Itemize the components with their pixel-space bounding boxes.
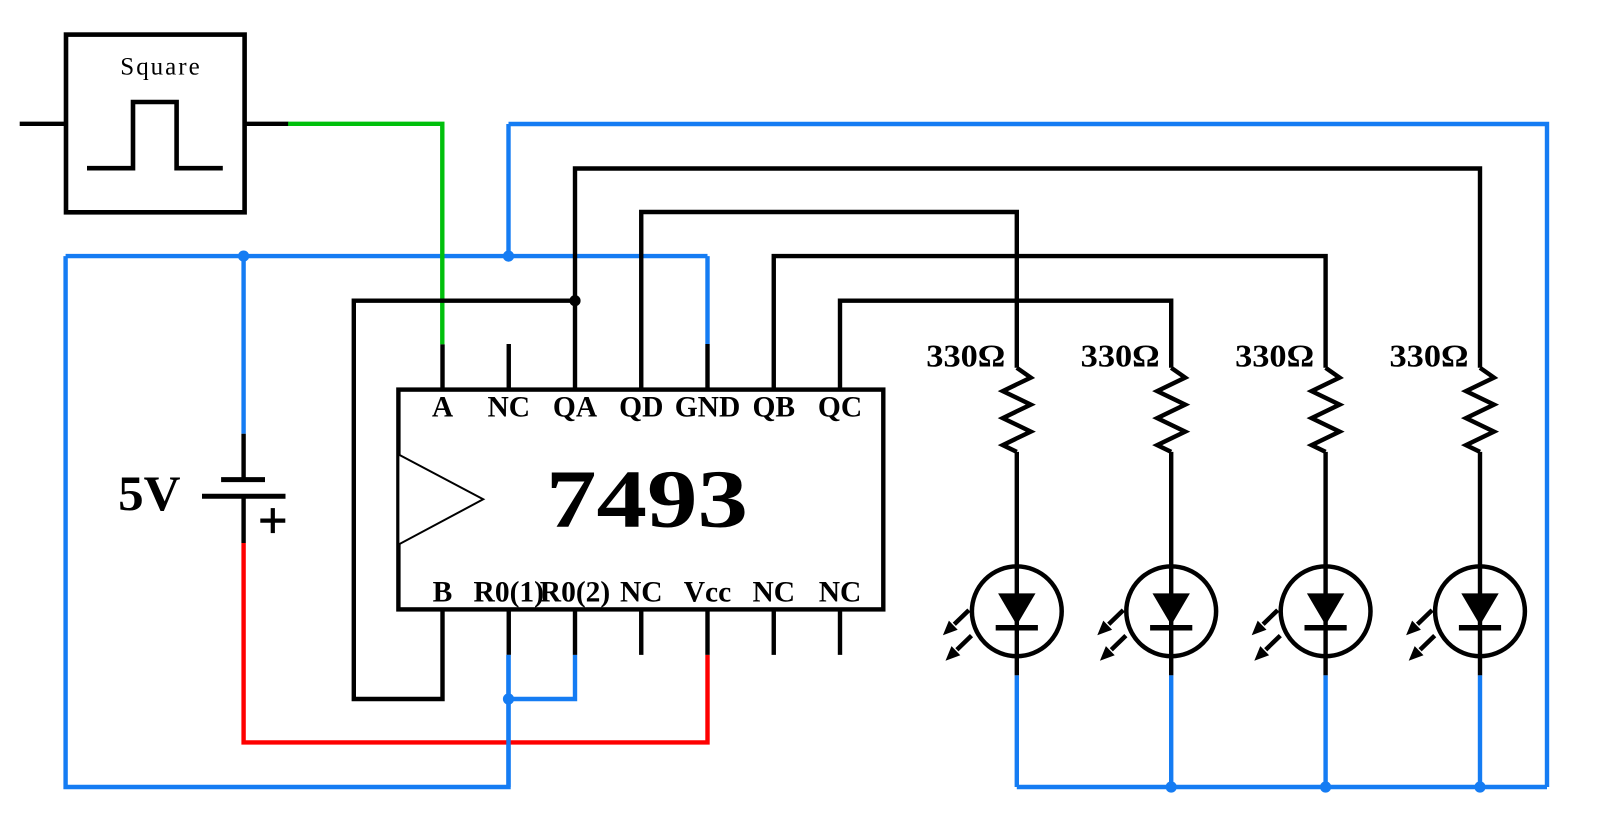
- junction: blue rail dot 2: [1166, 781, 1177, 792]
- svg-text:QD: QD: [619, 391, 663, 423]
- wire: source left stub: [20, 122, 66, 126]
- pin NC bottom7 stub: [838, 609, 842, 655]
- wire: QA to R4: [575, 169, 1480, 390]
- wire: blue top rail to right side: [509, 124, 1548, 787]
- junction: blue dot at R0(1): [503, 693, 514, 704]
- svg-text:R0(2): R0(2): [540, 577, 610, 609]
- svg-text:QC: QC: [818, 391, 862, 423]
- label battery plus sign: [260, 518, 285, 522]
- svg-text:B: B: [433, 577, 453, 609]
- resistor R4 330 ohm: [1466, 368, 1494, 452]
- svg-text:NC: NC: [752, 577, 795, 609]
- pin R0(1) stub: [507, 609, 511, 655]
- junction: blue dot ground rail at top drop: [503, 251, 514, 262]
- junction: blue rail dot 3: [1320, 781, 1331, 792]
- wire: B feedback from QA: [354, 301, 575, 699]
- LED D1: [943, 452, 1062, 676]
- svg-text:330Ω: 330Ω: [1390, 339, 1469, 374]
- wire: source output stub: [245, 122, 289, 126]
- wire: blue LED D4 to rail: [1478, 675, 1482, 787]
- wire: blue R0(1) to bottom rail: [506, 655, 510, 787]
- LED D3: [1252, 452, 1371, 676]
- svg-text:330Ω: 330Ω: [926, 339, 1005, 374]
- wire: bottom blue rail under LEDs: [1017, 785, 1547, 789]
- junction: blue dot ground rail at battery: [238, 251, 249, 262]
- wire: blue LED D2 to rail: [1169, 675, 1173, 787]
- wire: green clock wire to pin A: [288, 124, 442, 345]
- square wave source SRC1 box: [66, 35, 245, 213]
- pin Vcc stub: [705, 609, 709, 655]
- pin R0(2) stub: [573, 609, 577, 655]
- junction: black dot QA/B: [569, 295, 580, 306]
- pin A stub: [440, 344, 444, 389]
- svg-text:Square: Square: [120, 54, 199, 81]
- wire: blue drop to GND pin: [705, 256, 709, 344]
- battery V1: [241, 434, 245, 480]
- svg-text:NC: NC: [487, 391, 530, 423]
- LED D2: [1097, 452, 1216, 676]
- pin NC bottom4 stub: [639, 609, 643, 655]
- wire: blue battery top lead: [241, 256, 245, 434]
- svg-text:A: A: [432, 391, 454, 423]
- wire: QB to R3: [774, 256, 1326, 390]
- pin NC top stub: [507, 344, 511, 390]
- svg-text:QB: QB: [752, 391, 795, 423]
- wire: blue branch to R0(2): [509, 655, 576, 699]
- svg-text:7493: 7493: [546, 453, 748, 545]
- wire: blue LED D3 to rail: [1323, 675, 1327, 787]
- resistor R1 330 ohm: [1003, 368, 1031, 452]
- wire: QC to R2: [840, 301, 1171, 390]
- wire: blue LED D1 to rail: [1015, 675, 1019, 787]
- svg-text:QA: QA: [553, 391, 598, 423]
- svg-text:5V: 5V: [118, 465, 180, 521]
- svg-text:Vcc: Vcc: [684, 577, 732, 609]
- wire: ground rail: [66, 254, 708, 258]
- svg-text:330Ω: 330Ω: [1235, 339, 1314, 374]
- wire: left blue rail: [66, 256, 509, 787]
- LED D4: [1406, 452, 1525, 676]
- junction: blue rail dot 4: [1474, 781, 1485, 792]
- pin GND stub: [705, 344, 709, 390]
- resistor R3 330 ohm: [1312, 368, 1340, 452]
- wire: QD to R1: [641, 212, 1017, 390]
- svg-text:330Ω: 330Ω: [1081, 339, 1160, 374]
- square wave glyph: [87, 102, 223, 168]
- wire: red battery positive to Vcc: [244, 543, 708, 742]
- svg-text:NC: NC: [819, 577, 862, 609]
- svg-text:R0(1): R0(1): [474, 577, 544, 609]
- wire: blue vertical top to ground rail: [506, 124, 510, 256]
- svg-text:GND: GND: [675, 391, 741, 423]
- IC U1 7493 body: [398, 390, 883, 610]
- clock input triangle: [398, 454, 483, 544]
- resistor R2 330 ohm: [1157, 368, 1185, 452]
- pin NC bottom6 stub: [772, 609, 776, 655]
- svg-text:NC: NC: [620, 577, 663, 609]
